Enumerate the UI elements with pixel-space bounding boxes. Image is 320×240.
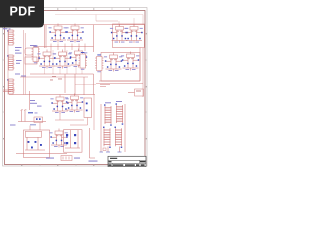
driver box M4 (84, 98, 92, 118)
net labels beside connectors (15, 47, 22, 75)
bottom jumper JP1 (61, 156, 72, 161)
left vertical bus pair (24, 30, 26, 95)
wires in module M5 (25, 137, 45, 150)
resistor network RN3 (103, 127, 111, 148)
resistor network RN4 (115, 127, 123, 148)
amplifier cell U5 (37, 50, 55, 69)
oscillator Y1 (25, 48, 34, 55)
vertical bus x44 (45, 25, 47, 48)
amplifier cell U11 (65, 94, 83, 113)
lower module box M5 (24, 130, 50, 158)
amplifier cell U9 (121, 52, 139, 71)
zone labels (3, 8, 147, 166)
ladder stems (108, 147, 120, 153)
module box M2 (101, 53, 140, 82)
transistor Q32 (31, 147, 33, 149)
right vertical wire (142, 48, 144, 97)
wire right drop (90, 128, 96, 158)
module box M1 (113, 24, 145, 48)
bus stub wires (96, 15, 143, 27)
pin strip P1 (79, 52, 88, 70)
inter-row bus wire (33, 46, 94, 48)
top bus wire B (96, 20, 118, 22)
amplifier cell U10 (50, 95, 68, 114)
title block (108, 156, 146, 166)
top bus wire A (55, 14, 143, 16)
net label bottom (46, 158, 98, 162)
transistor Q20 (86, 103, 88, 105)
value labels under bus (50, 76, 62, 80)
relay box (26, 131, 42, 137)
wire from connector (3, 90, 15, 92)
right flag connector (128, 89, 144, 96)
PDF badge (0, 0, 44, 28)
top bus wire C (10, 24, 145, 26)
connector rail wire (7, 30, 9, 95)
wire to module bottom (75, 84, 96, 86)
power box M6 (64, 130, 83, 153)
resistor network RN2 (116, 103, 124, 124)
transistor Q21 (86, 110, 88, 112)
amplifier cell U2 (65, 24, 83, 43)
amplifier cell U6 (53, 50, 71, 69)
ground marks (100, 151, 122, 153)
outer frame (zone ruler) (3, 8, 148, 167)
net label cluster (30, 100, 42, 107)
resistor network RN1 (104, 104, 112, 125)
amplifier cell U7 (69, 49, 87, 68)
amplifier cell U8 (104, 53, 122, 72)
inner frame (5, 11, 146, 165)
net label under badge (3, 28, 11, 29)
transistor Q34 (66, 134, 68, 136)
transistor Q33 (40, 144, 42, 146)
zone tick left (3, 60, 5, 112)
connector J1 (7, 30, 14, 45)
net label mid-left (21, 45, 36, 77)
pin strip P2 (95, 55, 104, 73)
capacitor C10 (25, 57, 37, 64)
connector J2 (7, 55, 14, 70)
zone tick bottom (40, 165, 112, 167)
tiny box under ladders (103, 148, 106, 151)
vertical drop wires (65, 25, 140, 95)
sub circuit K1 (10, 91, 46, 130)
ladder net labels (105, 101, 122, 103)
amplifier cell U12 (49, 129, 67, 148)
page background (0, 0, 149, 198)
svg-text:PDF: PDF (10, 4, 36, 18)
red marks under module M2 (100, 84, 110, 86)
connector J3 (7, 79, 14, 94)
transistor Q30 (28, 141, 30, 143)
mid bus wires (30, 73, 94, 75)
transistor Q37 (74, 142, 76, 144)
amplifier cell U1 (48, 24, 66, 43)
DIP IC X1 (32, 46, 41, 64)
amplifier cell U3 (110, 24, 128, 43)
wire bottom bus (16, 153, 67, 155)
transistor Q35 (74, 134, 76, 136)
horizontal wire y94 (9, 94, 95, 96)
ladder side wire left (100, 104, 102, 152)
amplifier cell U4 (124, 24, 142, 43)
inter-row vertical wires (51, 44, 85, 53)
zone tick right (146, 60, 148, 112)
row3 wires (55, 95, 94, 131)
transistor Q31 (35, 141, 37, 143)
transistor Q36 (66, 142, 68, 144)
row2 to bus vertical wires (45, 50, 83, 74)
wires in module M6 (65, 130, 80, 148)
zone tick top (40, 8, 112, 11)
ladder side wire right (124, 104, 126, 152)
jumper pins (63, 157, 69, 160)
